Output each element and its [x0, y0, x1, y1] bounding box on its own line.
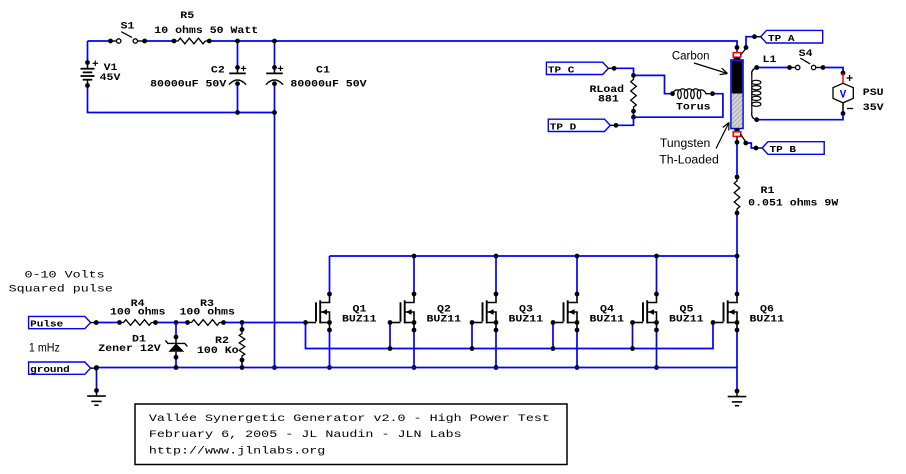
wire PSU minus lead	[842, 103, 844, 114]
wire Torus return	[634, 94, 723, 118]
svg-text:Tungsten: Tungsten	[660, 136, 711, 150]
wire ground rail	[97, 368, 738, 392]
wire Q5 drain stub	[656, 256, 658, 294]
resistor R2	[239, 330, 245, 361]
ground symbol left	[94, 388, 99, 393]
wire C2 bottom stub	[237, 84, 239, 113]
wire element bottom to TP B	[746, 143, 757, 148]
svg-text:S4: S4	[799, 48, 813, 59]
wire gate bus	[306, 323, 714, 349]
svg-text:0-10 Volts: 0-10 Volts	[25, 269, 105, 281]
svg-text:Th-Loaded: Th-Loaded	[659, 152, 719, 166]
testpoint TP B	[762, 142, 824, 155]
svg-text:R1: R1	[761, 185, 775, 196]
wire gate stub	[552, 323, 554, 349]
svg-text:Torus: Torus	[676, 102, 711, 113]
wire PSU bottom return	[757, 114, 843, 120]
wire R2 stub	[241, 323, 243, 330]
svg-text:TP B: TP B	[770, 144, 797, 155]
wire battery loop left	[87, 41, 89, 63]
svg-text:S1: S1	[121, 21, 135, 32]
wire D1 stub	[175, 323, 177, 338]
svg-text:BUZ11: BUZ11	[509, 313, 544, 324]
wire top rail	[209, 41, 737, 48]
wire Q1 source to ground rail	[329, 330, 331, 368]
svg-text:0.051 ohms 9W: 0.051 ohms 9W	[748, 198, 838, 209]
svg-text:L1: L1	[763, 54, 777, 65]
resistor R5	[174, 38, 209, 44]
svg-text:BUZ11: BUZ11	[669, 313, 704, 324]
wire ground flag stub	[96, 368, 98, 391]
wire gate stub	[389, 323, 391, 349]
capacitor C2	[235, 65, 240, 70]
resistor R3	[188, 320, 224, 326]
node element top	[735, 45, 740, 50]
svg-text:Squared pulse: Squared pulse	[9, 284, 113, 296]
svg-text:February 6, 2005 - JL Naudin -: February 6, 2005 - JL Naudin - JLN Labs	[149, 429, 462, 441]
transistor Q3	[494, 292, 499, 297]
wire TP C to RLoad	[615, 68, 634, 75]
element carbon/tungsten rod	[736, 48, 738, 54]
svg-text:Pulse: Pulse	[30, 319, 63, 330]
wire R2 to ground rail	[241, 360, 243, 368]
svg-text:R5: R5	[180, 10, 194, 21]
arrow to tungsten	[716, 123, 729, 149]
capacitor C1	[272, 65, 277, 70]
battery V1	[85, 60, 90, 65]
wire battery bottom	[88, 86, 275, 113]
wire Q6 source to ground rail	[736, 330, 738, 368]
wire Q2 source to ground rail	[413, 330, 415, 368]
svg-text:80000uF 50V: 80000uF 50V	[150, 79, 226, 90]
svg-text:TP C: TP C	[548, 64, 575, 75]
svg-text:100 Ko: 100 Ko	[197, 345, 239, 356]
resistor RLoad	[631, 75, 637, 111]
svg-text:45V: 45V	[100, 72, 121, 83]
wire R3 to gates	[224, 322, 306, 324]
switch S4	[787, 65, 792, 70]
wire Q1 drain stub	[329, 256, 331, 294]
switch S1	[108, 39, 113, 44]
transistor Q5	[654, 292, 659, 297]
wire PSU plus lead	[842, 73, 844, 83]
wire top rail left	[88, 40, 111, 42]
wire C2 top stub	[237, 41, 239, 67]
svg-text:ground: ground	[30, 364, 70, 375]
wire R4-R3 link	[156, 322, 188, 324]
svg-text:C1: C1	[316, 65, 330, 76]
wire RLoad to Torus	[634, 75, 673, 93]
transistor Q4	[575, 292, 580, 297]
testpoint TP A	[761, 30, 823, 43]
transistor Q6	[735, 292, 740, 297]
wire Q4 source to ground rail	[576, 330, 578, 368]
svg-text:PSU: PSU	[863, 87, 884, 98]
svg-text:100 ohms: 100 ohms	[180, 307, 235, 318]
svg-text:TP A: TP A	[768, 33, 795, 44]
node R2 top junction	[240, 320, 245, 325]
resistor R4	[120, 320, 156, 326]
wire Q3 drain stub	[495, 256, 497, 294]
svg-text:V: V	[840, 90, 847, 102]
testpoint Pulse	[29, 316, 91, 328]
resistor R1	[734, 177, 740, 213]
inductor Torus	[670, 91, 675, 96]
svg-text:Vallée Synergetic Generator v2: Vallée Synergetic Generator v2.0 - High …	[149, 413, 550, 425]
wire element bottom to R1	[736, 142, 738, 177]
wire gate stub	[471, 323, 473, 349]
wire drain rail	[330, 255, 738, 257]
svg-text:35V: 35V	[863, 102, 884, 113]
arrow to carbon	[694, 63, 728, 75]
svg-text:BUZ11: BUZ11	[427, 313, 462, 324]
wire C1 down to ground rail	[274, 84, 276, 368]
transistor Q2	[412, 292, 417, 297]
svg-text:C2: C2	[211, 65, 225, 76]
svg-text:BUZ11: BUZ11	[590, 313, 625, 324]
inductor L1	[754, 65, 759, 70]
svg-text:BUZ11: BUZ11	[750, 313, 785, 324]
wire S4 to PSU	[823, 68, 843, 74]
wire L1 to S4	[757, 67, 790, 69]
svg-text:http://www.jlnlabs.org: http://www.jlnlabs.org	[149, 446, 325, 458]
wire RLoad bottom stub	[633, 111, 635, 117]
wire gate stub	[632, 323, 634, 349]
wire element top to TP A	[746, 37, 755, 48]
svg-text:Carbon: Carbon	[672, 48, 710, 62]
voltmeter PSU	[833, 83, 853, 103]
svg-text:881: 881	[598, 94, 619, 105]
svg-text:1 mHz: 1 mHz	[29, 341, 60, 355]
svg-text:80000uF 50V: 80000uF 50V	[290, 79, 366, 90]
svg-text:10 ohms 50 Watt: 10 ohms 50 Watt	[154, 25, 258, 36]
wire top rail mid	[145, 40, 174, 42]
wire Q3 source to ground rail	[495, 330, 497, 368]
transistor Q1	[327, 292, 332, 297]
ground symbol right	[735, 389, 740, 394]
title box	[135, 404, 567, 465]
wire pulse line	[97, 322, 120, 324]
zener diode D1	[174, 335, 179, 340]
testpoint ground	[29, 362, 91, 374]
wire Q5 source to ground rail	[656, 330, 658, 368]
wire TP D to RLoad	[617, 117, 634, 125]
wire Q4 drain stub	[576, 256, 578, 294]
svg-text:TP D: TP D	[550, 121, 577, 132]
node D1 top junction	[174, 320, 179, 325]
wire Q2 drain stub	[413, 256, 415, 294]
testpoint TP C	[546, 62, 608, 74]
wire R1 to drain rail	[736, 213, 738, 294]
wire D1 to ground rail	[175, 357, 177, 367]
svg-text:100 ohms: 100 ohms	[110, 307, 165, 318]
svg-text:BUZ11: BUZ11	[342, 313, 377, 324]
wire C1 top stub	[274, 41, 276, 67]
svg-text:Zener 12V: Zener 12V	[98, 343, 160, 354]
testpoint TP D	[548, 119, 610, 131]
